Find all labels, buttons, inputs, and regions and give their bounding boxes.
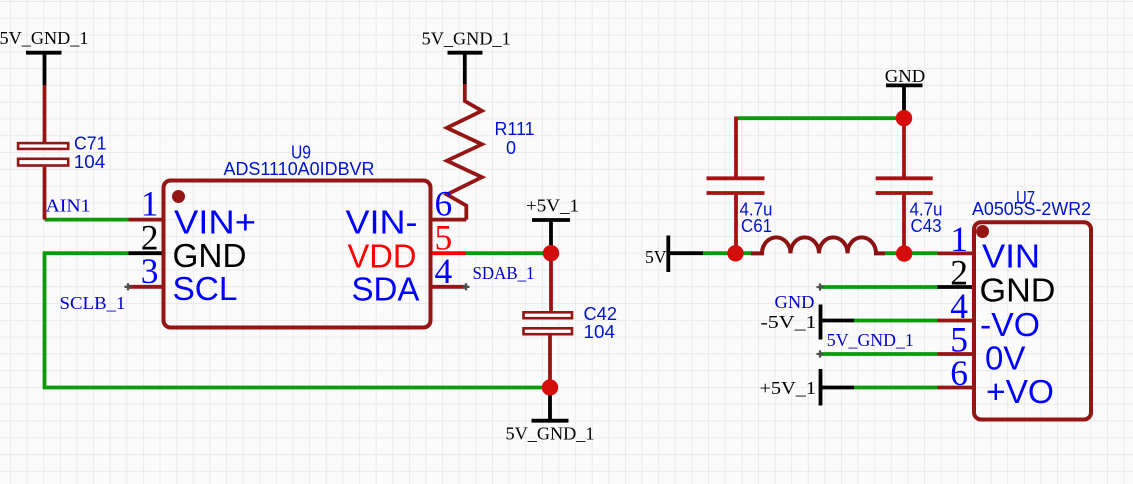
svg-text:+5V_1: +5V_1	[526, 196, 579, 216]
svg-text:VIN-: VIN-	[346, 204, 418, 241]
svg-text:SDA: SDA	[352, 270, 420, 307]
svg-text:GND: GND	[173, 237, 247, 274]
svg-text:+VO: +VO	[986, 373, 1054, 410]
svg-text:0V: 0V	[985, 339, 1025, 376]
svg-text:VDD: VDD	[348, 237, 417, 274]
svg-text:C61: C61	[741, 216, 772, 236]
svg-text:SCLB_1: SCLB_1	[60, 293, 126, 313]
svg-text:GND: GND	[885, 66, 926, 86]
svg-text:A0505S-2WR2: A0505S-2WR2	[972, 199, 1091, 219]
svg-text:AIN1: AIN1	[46, 196, 91, 216]
svg-text:C71: C71	[74, 134, 107, 154]
svg-text:C43: C43	[911, 216, 942, 236]
svg-text:5V_GND_1: 5V_GND_1	[0, 28, 89, 48]
svg-text:GND: GND	[775, 292, 815, 312]
svg-text:-VO: -VO	[980, 306, 1040, 343]
svg-text:VIN+: VIN+	[174, 204, 256, 241]
svg-text:SCL: SCL	[173, 270, 238, 307]
svg-text:-5V_1: -5V_1	[761, 312, 817, 332]
svg-text:5V_GND_1: 5V_GND_1	[506, 424, 595, 444]
svg-text:SDAB_1: SDAB_1	[473, 263, 535, 283]
svg-text:3: 3	[141, 251, 159, 291]
svg-text:ADS1110A0IDBVR: ADS1110A0IDBVR	[224, 159, 375, 179]
svg-text:5V_GND_1: 5V_GND_1	[827, 330, 914, 350]
svg-text:4: 4	[435, 251, 453, 291]
svg-text:VIN: VIN	[982, 238, 1040, 275]
svg-text:C42: C42	[584, 304, 618, 324]
svg-text:GND: GND	[980, 272, 1056, 309]
svg-text:+5V_1: +5V_1	[760, 378, 817, 398]
svg-text:R111: R111	[495, 119, 535, 139]
svg-text:5V_GND_1: 5V_GND_1	[422, 28, 511, 48]
svg-text:104: 104	[74, 152, 106, 172]
svg-text:5V: 5V	[645, 247, 667, 267]
svg-text:0: 0	[506, 138, 516, 158]
svg-text:6: 6	[950, 353, 968, 393]
svg-text:104: 104	[584, 322, 616, 342]
